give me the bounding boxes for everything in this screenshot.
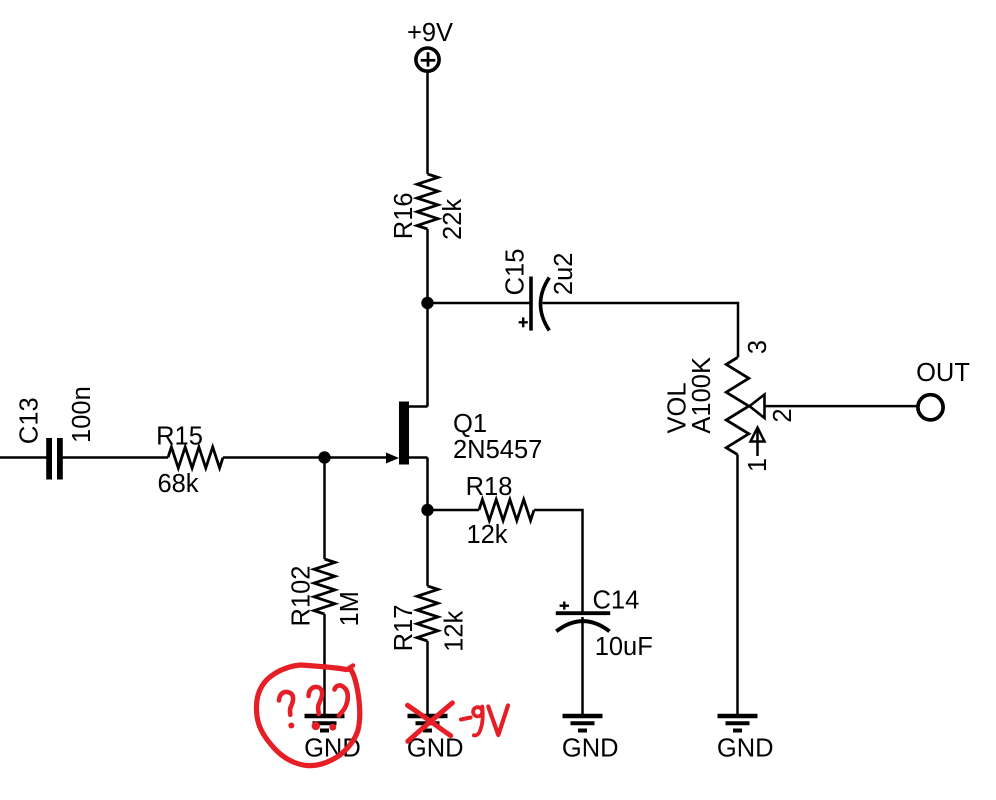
svg-text:C15: C15 (501, 249, 529, 296)
red annotations (256, 665, 508, 766)
red question mark 2 (309, 687, 323, 714)
svg-text:C13: C13 (15, 397, 43, 444)
svg-text:1: 1 (744, 458, 772, 472)
wire R102 to GND1 (323, 614, 326, 714)
resistor R16 (417, 174, 438, 229)
resistor R18 (479, 500, 534, 521)
wire R17 to GND2 (426, 641, 429, 714)
svg-text:10uF: 10uF (595, 633, 653, 661)
svg-text:22k: 22k (439, 199, 467, 240)
svg-text:R17: R17 (390, 605, 418, 652)
transistor Q1 gate arrow (386, 453, 399, 464)
svg-text:R16: R16 (390, 192, 418, 239)
OUT terminal (918, 395, 943, 420)
svg-text:100n: 100n (68, 386, 96, 443)
wire R15 to gate (223, 456, 387, 459)
transistor Q1 channel bar (399, 402, 409, 465)
potentiometer VOL A100K (726, 358, 749, 455)
red question mark 1 (279, 692, 293, 715)
red circle annotation around GND1 (256, 665, 359, 766)
red -9V annotation V (488, 706, 508, 736)
svg-text:R15: R15 (156, 423, 203, 451)
svg-text:GND: GND (717, 735, 774, 763)
red circle tail (346, 666, 353, 671)
red question mark 3 (335, 685, 348, 715)
svg-text:12k: 12k (466, 521, 507, 549)
svg-text:Q1: Q1 (453, 410, 487, 438)
wire R16 to drain (426, 229, 429, 407)
svg-text:2N5457: 2N5457 (453, 436, 542, 464)
svg-text:2: 2 (769, 408, 797, 422)
node drain junction (421, 297, 433, 309)
svg-text:R18: R18 (466, 473, 513, 501)
red -9V annotation 9 (473, 707, 482, 716)
resistor R15 (168, 447, 223, 468)
wire C13 to R15 (63, 456, 169, 459)
Q1 drain lead (409, 405, 428, 408)
wire node to R102 (323, 458, 326, 560)
svg-text:12k: 12k (440, 610, 468, 651)
svg-text:GND: GND (407, 735, 464, 763)
wire pot to GND4 (736, 455, 739, 714)
resistor R102 (314, 559, 335, 614)
wire wiper to OUT (765, 405, 917, 408)
svg-text:2u2: 2u2 (550, 253, 578, 296)
power +9V symbol (416, 48, 439, 71)
red -9V annotation dash (461, 718, 471, 720)
ground GND2 (407, 716, 464, 763)
svg-text:3: 3 (744, 340, 772, 354)
red X over GND2 (408, 703, 453, 741)
C15 plus sign (519, 317, 528, 327)
node gate junction (318, 451, 330, 463)
pot direction arrow (751, 428, 765, 457)
svg-text:+9V: +9V (407, 19, 453, 47)
ground GND3 (562, 716, 619, 763)
C14 plus sign (560, 602, 569, 610)
ground GND4 (717, 716, 774, 763)
svg-text:GND: GND (562, 735, 619, 763)
wire C14 to GND3 (581, 617, 584, 714)
svg-text:C14: C14 (593, 586, 640, 614)
Q1 source lead (409, 456, 428, 459)
capacitor C14 (556, 613, 610, 631)
wire node to R18 (428, 509, 480, 512)
svg-text:OUT: OUT (916, 359, 970, 387)
resistor R17 (417, 586, 438, 641)
input wire (0, 456, 47, 459)
wire R18 to C14 (534, 510, 583, 613)
wire node to C15 (428, 302, 532, 305)
capacitor C15 (531, 277, 549, 331)
pot wiper triangle (750, 395, 765, 419)
svg-text:1M: 1M (336, 591, 364, 626)
svg-text:R102: R102 (287, 566, 315, 627)
ground GND1 (304, 716, 361, 763)
node source junction (421, 504, 433, 516)
svg-text:A100K: A100K (688, 357, 716, 434)
wire power to R16 (426, 73, 429, 175)
wire source down (426, 458, 429, 587)
wire C15 to pot (543, 303, 739, 358)
capacitor C13 (49, 438, 60, 480)
svg-text:68k: 68k (157, 470, 198, 498)
